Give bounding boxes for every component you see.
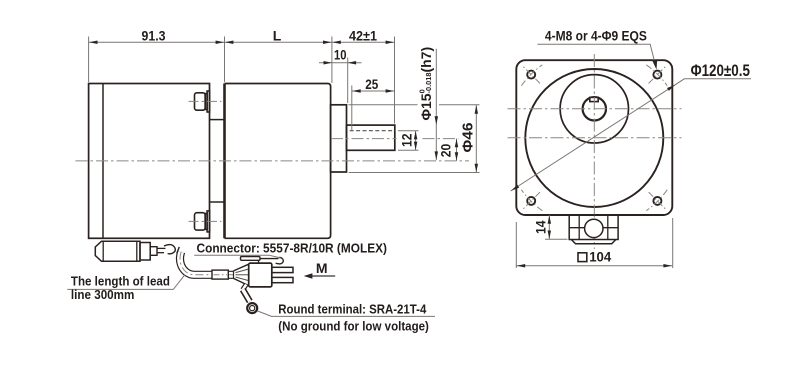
terminal box circle: [585, 219, 603, 237]
cable centerline: [180, 252, 234, 275]
dimension 42±1: [331, 37, 333, 84]
corner hole top-left: [527, 71, 535, 79]
cable gland body: [95, 241, 140, 261]
connector latch: [241, 257, 261, 261]
neck bottom edge: [210, 201, 225, 203]
motor body circle: [525, 69, 663, 207]
svg-text:(No ground for low voltage): (No ground for low voltage): [278, 319, 429, 334]
terminal box: [569, 215, 618, 240]
bottom bolt centerline: [189, 220, 222, 222]
svg-text:12: 12: [399, 133, 415, 147]
svg-text:Φ150-0.018(h7): Φ150-0.018(h7): [418, 47, 435, 121]
dimension Φ15 leader: [435, 49, 437, 160]
crimp barrel: [243, 290, 250, 302]
dimension 91.3: [88, 37, 90, 83]
bottom cover bolt head: [195, 211, 210, 232]
shaft axis centerline: [331, 138, 397, 140]
terminal box cap: [571, 240, 616, 244]
strain relief hook: [164, 245, 175, 254]
keyway slot: [590, 97, 598, 101]
gearbox body (L section): [225, 84, 331, 239]
leader: connector label: [194, 255, 280, 258]
gland seam: [102, 241, 104, 261]
flange square: [516, 60, 672, 215]
gearbox mating face (thick): [223, 84, 226, 239]
shaft axis centerline: [508, 108, 682, 110]
svg-text:M: M: [316, 260, 328, 276]
svg-text:Φ120±0.5: Φ120±0.5: [691, 62, 750, 80]
terminal pin 2: [272, 277, 293, 282]
svg-text:Connector: 5557-8R/10R (MOLEX): Connector: 5557-8R/10R (MOLEX): [197, 240, 388, 255]
top cover bolt head: [195, 91, 210, 112]
dimension 25: [351, 86, 353, 131]
bolt circle tangent marks: [521, 65, 667, 211]
svg-text:14: 14: [533, 220, 549, 234]
shaft circle Φ15: [583, 97, 606, 120]
keyway hidden line: [350, 130, 395, 132]
dimension 14: [545, 238, 568, 240]
dimension 10: [347, 58, 349, 104]
wire stub: [157, 247, 166, 249]
dimension 12: [398, 130, 419, 132]
gland seam 2: [136, 241, 138, 261]
round terminal ring: [247, 303, 257, 313]
cable sleeve marker: [212, 270, 228, 279]
rear cover seam line: [102, 84, 104, 239]
svg-text:10: 10: [334, 46, 347, 62]
cable end cap: [177, 247, 180, 254]
cable end edge: [233, 271, 235, 278]
gland nipple: [150, 247, 157, 256]
corner hole bottom-left: [527, 197, 535, 205]
svg-text:104: 104: [589, 249, 611, 264]
svg-text:Φ46: Φ46: [461, 123, 477, 153]
wire fan to connector: [234, 264, 249, 285]
svg-text:line 300mm: line 300mm: [71, 287, 134, 302]
dimension L: [225, 41, 332, 43]
dimension square 104: [515, 222, 517, 268]
terminal pin 1: [272, 267, 293, 272]
top bolt centerline: [189, 100, 222, 102]
motor rear housing block: [89, 84, 210, 239]
text square 104: [578, 253, 587, 262]
svg-text:20: 20: [438, 144, 454, 158]
output shaft: [347, 125, 395, 150]
svg-text:4-M8 or 4-Φ9 EQS: 4-M8 or 4-Φ9 EQS: [545, 27, 647, 43]
svg-text:42±1: 42±1: [349, 27, 377, 43]
neck top edge: [210, 119, 225, 121]
corner hole top-right: [653, 71, 661, 79]
boss circle Φ46: [560, 75, 628, 143]
connector body U1: [249, 263, 272, 287]
motor axis centerline: [76, 160, 470, 162]
svg-text:Round terminal: SRA-21T-4: Round terminal: SRA-21T-4: [278, 302, 427, 317]
lead cable curve: [180, 252, 234, 275]
leader 4-M8: [537, 44, 656, 67]
leader: lead length label: [67, 275, 185, 290]
leader: round terminal label: [257, 311, 435, 317]
dimension Φ46: [349, 104, 418, 106]
gland middle step: [140, 243, 150, 261]
output pilot boss: [331, 105, 347, 172]
svg-text:25: 25: [365, 76, 378, 92]
motor axis centerline: [508, 137, 682, 139]
svg-text:91.3: 91.3: [142, 27, 166, 43]
arrow M (rotation mark): [311, 275, 335, 277]
ground wire: [243, 285, 247, 290]
vertical centerline: [593, 54, 595, 249]
dimension Φ120 line: [511, 79, 751, 191]
svg-text:L: L: [273, 27, 282, 43]
corner hole bottom-right: [653, 197, 661, 205]
dimension 20: [456, 139, 458, 161]
